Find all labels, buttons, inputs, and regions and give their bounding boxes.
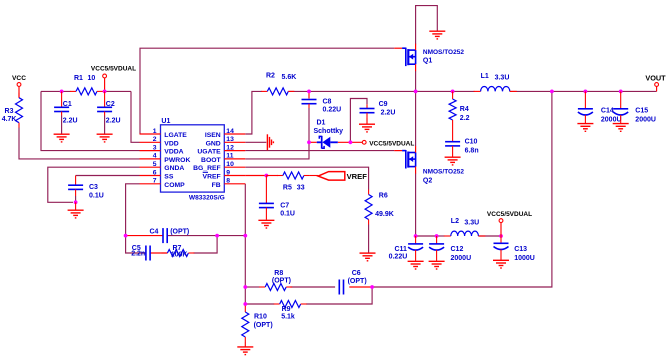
svg-text:0.1U: 0.1U — [280, 210, 295, 217]
svg-text:C11: C11 — [395, 246, 408, 253]
svg-text:2: 2 — [153, 136, 157, 143]
wire VOUT stub — [656, 86, 658, 91]
wire Q1 source to rail — [415, 71, 417, 91]
svg-text:NMOS/TO252: NMOS/TO252 — [423, 49, 464, 56]
svg-text:5: 5 — [153, 161, 157, 168]
terminal VCC — [12, 75, 26, 86]
svg-text:BOOT: BOOT — [201, 157, 221, 164]
svg-text:C8: C8 — [323, 99, 332, 106]
pin 10 stub — [224, 166, 245, 168]
svg-text:C7: C7 — [280, 202, 289, 209]
svg-text:(OPT): (OPT) — [272, 278, 291, 285]
svg-text:C2: C2 — [106, 101, 115, 108]
wire FB junction to R8 — [245, 286, 259, 288]
svg-text:VCC5/5VDUAL: VCC5/5VDUAL — [91, 66, 136, 73]
resistor R4 — [449, 94, 456, 125]
ground under C3 — [68, 202, 84, 218]
wire GND pin stub — [245, 141, 266, 143]
wire VCC5 rail C1-C2 top — [41, 90, 71, 92]
svg-text:(OPT): (OPT) — [348, 278, 367, 285]
terminal VOUT — [645, 73, 666, 86]
svg-text:33: 33 — [297, 185, 305, 192]
wire LGATE to Q1 gate — [140, 48, 394, 134]
svg-text:LGATE: LGATE — [164, 132, 187, 139]
wire C4 row right — [167, 235, 217, 237]
capacitor C14 — [578, 91, 593, 123]
wire UGATE to Q2 gate — [245, 150, 394, 152]
wire L1 to output — [510, 90, 657, 92]
svg-text:C6: C6 — [352, 270, 361, 277]
resistor R10 — [242, 307, 249, 342]
svg-text:D1: D1 — [317, 119, 326, 126]
ground GND pin sideways — [267, 134, 273, 150]
svg-text:C15: C15 — [635, 108, 648, 115]
wire phase to R4 — [416, 90, 453, 92]
svg-text:6.8n: 6.8n — [465, 147, 479, 154]
junction FB R8 — [243, 285, 247, 289]
ground under C9 — [359, 124, 375, 132]
svg-text:3.3U: 3.3U — [464, 220, 479, 227]
svg-text:C13: C13 — [514, 246, 527, 253]
svg-text:2.2U: 2.2U — [63, 118, 78, 125]
wire Q1 drain to ground bracket — [416, 6, 438, 45]
wire VDD down — [131, 91, 140, 142]
junction C15 — [619, 90, 623, 94]
resistor R2 — [261, 88, 294, 95]
ground under C12 — [429, 261, 445, 269]
svg-text:VOUT: VOUT — [645, 73, 666, 82]
svg-text:2.2U: 2.2U — [106, 118, 121, 125]
capacitor C5 — [146, 246, 150, 261]
pin 9 stub — [224, 175, 245, 177]
wire VREF pin to junction — [245, 175, 266, 177]
pin 11 stub — [224, 158, 245, 160]
ground under C13 — [493, 260, 509, 268]
resistor R6 — [365, 190, 372, 225]
wire BOOT to D1 junction — [245, 142, 309, 159]
capacitor C11 — [408, 236, 423, 261]
inductor L1 — [474, 87, 517, 92]
node VREF flag — [318, 172, 345, 181]
junction C4 left — [124, 234, 128, 238]
svg-text:6: 6 — [153, 169, 157, 176]
svg-text:Q1: Q1 — [423, 57, 432, 64]
ground under C11 — [408, 261, 424, 269]
svg-text:C1: C1 — [63, 101, 72, 108]
wire C12 to L2 — [437, 235, 445, 237]
wire C6 to feedback junction — [349, 286, 372, 288]
wire Q2 drain — [415, 91, 417, 146]
svg-text:12: 12 — [226, 144, 234, 151]
ground under C2 — [97, 134, 113, 142]
capacitor C8 — [302, 100, 317, 109]
wire SS to C3 top — [76, 175, 140, 177]
capacitor C10 — [445, 125, 460, 157]
wire ISEN to R2 — [245, 91, 262, 134]
junction R5 C7 — [265, 174, 269, 178]
wire R6 to ground — [368, 225, 370, 253]
svg-text:VCC5/5VDUAL: VCC5/5VDUAL — [487, 211, 532, 218]
svg-text:0.22U: 0.22U — [323, 107, 342, 114]
wire L2 to C13 junction — [478, 235, 501, 237]
svg-text:VDD: VDD — [164, 140, 178, 147]
svg-text:VREF: VREF — [347, 172, 368, 181]
pin 13 stub — [224, 141, 245, 143]
pin 5 stub — [140, 166, 161, 168]
svg-text:8: 8 — [226, 178, 230, 185]
junction Q2 source C11 — [414, 234, 418, 238]
wire feedback from rail — [372, 91, 552, 287]
svg-text:W83320S/G: W83320S/G — [189, 194, 225, 201]
wire VREF flag stub — [310, 175, 318, 177]
resistor R5 — [277, 172, 310, 179]
junction C12 — [435, 234, 439, 238]
svg-text:2000U: 2000U — [635, 117, 656, 124]
svg-text:GNDA: GNDA — [164, 165, 184, 172]
pin 7 stub — [140, 183, 161, 185]
pin 4 stub — [140, 158, 161, 160]
wire R9 to riser — [306, 287, 372, 304]
svg-text:Q2: Q2 — [423, 178, 432, 185]
svg-text:2.2U: 2.2U — [381, 110, 396, 117]
svg-text:GND: GND — [206, 140, 221, 147]
svg-text:10: 10 — [226, 161, 234, 168]
svg-text:C10: C10 — [465, 139, 478, 146]
wire D1 anode to VCC5 terminal — [338, 141, 363, 143]
capacitor C13 — [494, 236, 509, 260]
diode D1 — [317, 136, 338, 149]
wire FB down — [244, 184, 246, 287]
wire BG_REF to R6 — [245, 167, 368, 189]
ground under R10 — [237, 347, 253, 355]
wire R4 top stub — [452, 91, 454, 94]
wire D1 cathode stub — [309, 141, 317, 143]
ground under C14 — [577, 124, 593, 132]
svg-text:L1: L1 — [481, 73, 489, 80]
wire R10 top — [244, 304, 246, 307]
capacitor C2 — [97, 91, 112, 115]
pin 6 stub — [140, 175, 161, 177]
capacitor C7 — [259, 176, 274, 220]
svg-text:PWROK: PWROK — [164, 157, 190, 164]
wire C9 to ground — [366, 118, 368, 124]
svg-text:4: 4 — [153, 153, 157, 160]
svg-text:C4: C4 — [150, 229, 159, 236]
svg-text:4.7K: 4.7K — [2, 116, 17, 123]
wire COMP branch to C5 row — [126, 236, 146, 253]
svg-text:10: 10 — [88, 75, 96, 82]
svg-text:49.9K: 49.9K — [375, 211, 394, 218]
ground under C1 — [54, 134, 70, 142]
svg-text:0.22U: 0.22U — [389, 254, 408, 261]
wire R9 row — [245, 303, 274, 305]
junction C8 top — [307, 90, 311, 94]
wire bottom rail C11-C12 — [416, 235, 437, 237]
junction C3 ground — [74, 200, 78, 204]
wire C4 row left — [126, 235, 163, 237]
svg-text:R6: R6 — [379, 193, 388, 200]
svg-text:11: 11 — [226, 153, 233, 160]
svg-text:1000U: 1000U — [514, 255, 535, 262]
svg-text:13: 13 — [226, 136, 234, 143]
junction R4 — [451, 90, 455, 94]
wire C3 to junction — [75, 196, 77, 202]
wire C1 to ground — [61, 116, 63, 134]
capacitor C1 — [54, 91, 69, 115]
junction C4 row FB — [243, 234, 247, 238]
inductor L2 — [444, 231, 486, 236]
junction phase node — [414, 90, 418, 94]
svg-text:1: 1 — [153, 128, 157, 135]
svg-text:R8: R8 — [274, 270, 283, 277]
ground under C7 — [258, 220, 274, 228]
svg-text:COMP: COMP — [164, 182, 185, 189]
svg-text:L2: L2 — [451, 218, 459, 225]
svg-text:R4: R4 — [460, 106, 469, 113]
wire PWROK from R3 — [19, 128, 140, 159]
svg-text:ISEN: ISEN — [205, 132, 221, 139]
junction C13 — [499, 234, 503, 238]
svg-text:5.1k: 5.1k — [281, 313, 295, 320]
pin 3 stub — [140, 150, 161, 152]
wire VDDA from C1 loop — [41, 91, 140, 150]
wire R7 to riser — [194, 236, 218, 253]
capacitor C3 — [68, 176, 83, 197]
svg-text:14: 14 — [226, 128, 234, 135]
pin 8 stub — [224, 183, 245, 185]
pin 2 stub — [140, 141, 161, 143]
svg-text:UGATE: UGATE — [197, 149, 221, 156]
resistor R8 — [259, 284, 292, 291]
wire C5 to R7 — [150, 252, 167, 254]
svg-text:R2: R2 — [266, 72, 275, 79]
pin label VREF with overline on V — [203, 172, 221, 180]
junction C6 R9 feedback — [370, 285, 374, 289]
svg-text:FB: FB — [212, 182, 221, 189]
svg-text:3: 3 — [153, 144, 157, 151]
wire C8 to BOOT junction — [308, 108, 310, 142]
resistor R7 — [161, 250, 194, 257]
svg-text:2000U: 2000U — [601, 117, 622, 124]
capacitor C4 — [163, 228, 167, 243]
wire C2 to ground — [104, 116, 106, 134]
wire C8 body — [308, 91, 310, 98]
svg-text:9: 9 — [226, 169, 230, 176]
resistor R1 — [70, 88, 103, 95]
junction C1 — [60, 90, 64, 94]
junction C9 branch — [349, 140, 353, 144]
svg-text:R3: R3 — [5, 108, 14, 115]
svg-text:R10: R10 — [254, 314, 267, 321]
wire R5 left — [266, 175, 278, 177]
svg-text:C14: C14 — [601, 108, 614, 115]
transistor Q1 — [394, 44, 415, 71]
terminal VCC5/5VDUAL bottom — [487, 211, 532, 222]
wire VCC5 top stub — [104, 78, 106, 92]
junction C2 — [103, 90, 107, 94]
wire Q2 source to bottom rail — [415, 173, 417, 236]
ground under R6 — [360, 253, 376, 261]
svg-text:3.3U: 3.3U — [495, 75, 510, 82]
wire GNDA to C3 ground — [48, 167, 140, 202]
wire COMP to C4 net — [126, 184, 140, 236]
op-amp U1 W83320S/G body — [161, 125, 225, 192]
svg-text:R5: R5 — [283, 185, 292, 192]
terminal VCC5/5VDUAL top — [91, 66, 136, 78]
wire C9 branch — [350, 99, 367, 143]
wire FB to R9 row — [244, 287, 246, 304]
junction feedback tap — [550, 90, 554, 94]
svg-text:VREF: VREF — [203, 174, 221, 181]
junction C14 — [584, 90, 588, 94]
svg-text:100K: 100K — [171, 252, 188, 259]
transistor Q2 — [394, 146, 415, 174]
wire R8 to C6 — [290, 286, 335, 288]
resistor R3 — [16, 93, 23, 128]
svg-text:C12: C12 — [451, 246, 464, 253]
resistor R9 — [274, 301, 307, 308]
svg-text:R1: R1 — [74, 75, 83, 82]
capacitor C12 — [429, 236, 444, 261]
pin 12 stub — [224, 150, 245, 152]
wire VCC stub — [18, 86, 20, 97]
terminal VCC5/5VDUAL mid — [362, 140, 414, 147]
svg-text:2000U: 2000U — [451, 255, 472, 262]
wire R1 right to VDD corner — [105, 90, 131, 92]
svg-text:2.2n: 2.2n — [131, 251, 145, 258]
wire C4 row to FB vertical — [217, 235, 245, 237]
svg-text:(OPT): (OPT) — [170, 229, 189, 236]
svg-text:VDDA: VDDA — [164, 149, 183, 156]
capacitor C15 — [613, 91, 628, 123]
svg-text:C3: C3 — [89, 184, 98, 191]
pin 1 stub — [140, 133, 161, 135]
pin 14 stub — [224, 133, 245, 135]
wire C8 junction to phase — [309, 90, 416, 92]
svg-text:NMOS/TO252: NMOS/TO252 — [423, 169, 464, 176]
wire R10 to ground — [244, 342, 246, 347]
junction BOOT D1 C8 — [307, 140, 311, 144]
svg-text:VCC5/5VDUAL: VCC5/5VDUAL — [369, 140, 414, 147]
ground Q1 drain — [429, 31, 445, 39]
svg-text:BG_REF: BG_REF — [193, 165, 221, 172]
svg-text:5.6K: 5.6K — [282, 74, 297, 81]
svg-text:U1: U1 — [161, 118, 170, 125]
ground under C15 — [613, 124, 629, 132]
wire VCC5 bottom stub — [500, 223, 502, 237]
svg-text:SS: SS — [164, 174, 174, 181]
svg-text:VCC: VCC — [12, 75, 26, 82]
svg-text:(OPT): (OPT) — [254, 322, 273, 329]
svg-text:7: 7 — [153, 178, 157, 185]
wire R2 to C8 junction — [288, 90, 309, 92]
wire R4 to L1 — [453, 90, 475, 92]
svg-text:Schottky: Schottky — [314, 128, 344, 135]
svg-text:R9: R9 — [282, 306, 291, 313]
svg-text:0.1U: 0.1U — [89, 192, 104, 199]
capacitor C9 — [360, 104, 375, 118]
ground under C10 — [445, 157, 461, 165]
svg-text:2.2: 2.2 — [460, 115, 470, 122]
capacitor C6 — [339, 280, 343, 295]
svg-text:C9: C9 — [379, 101, 388, 108]
junction R9 R10 — [243, 302, 247, 306]
junction R7 riser — [215, 234, 219, 238]
